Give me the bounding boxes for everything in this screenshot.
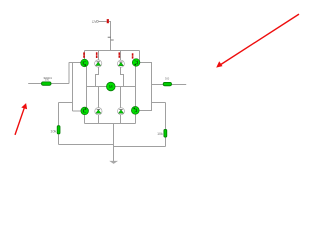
svg-text:300: 300 <box>165 76 170 80</box>
svg-text:12V: 12V <box>92 20 97 24</box>
svg-text:10k: 10k <box>157 132 163 136</box>
svg-text:300: 300 <box>45 78 50 82</box>
svg-text:10k: 10k <box>50 130 56 134</box>
svg-text:M: M <box>109 84 113 89</box>
